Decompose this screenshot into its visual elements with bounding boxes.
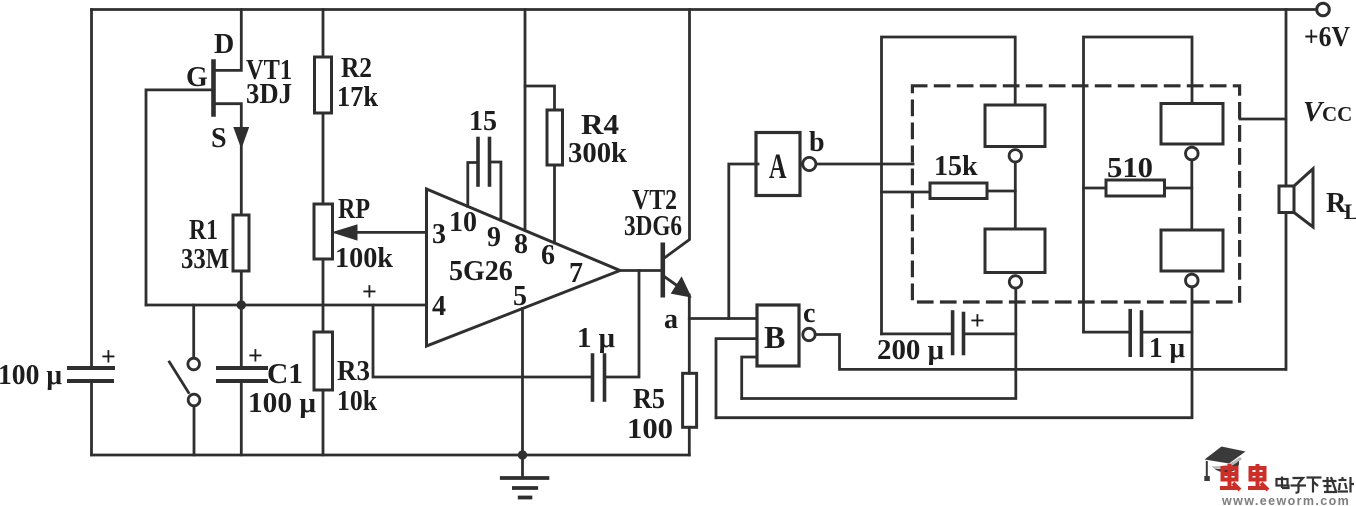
svg-text:300k: 300k xyxy=(568,138,627,169)
svg-text:B: B xyxy=(764,319,785,355)
svg-text:33M: 33M xyxy=(181,244,229,275)
svg-text:3DG6: 3DG6 xyxy=(624,211,682,242)
logo text zi xyxy=(1291,478,1307,493)
VT1 source arrow xyxy=(234,128,249,148)
resistor R1 xyxy=(233,215,249,271)
cap mortarboard xyxy=(1205,447,1246,464)
VT2 collector xyxy=(664,10,689,259)
module2 upper winding xyxy=(1161,104,1223,145)
wire bottom ground rail xyxy=(92,454,690,457)
wire emitter down xyxy=(688,295,691,373)
capacitor 1u (feedback) xyxy=(593,355,605,400)
logo char chong 2 xyxy=(1248,464,1268,490)
wire pin 8 from rail xyxy=(524,10,527,231)
svg-text:D: D xyxy=(214,29,234,60)
module1 upper winding xyxy=(985,105,1045,147)
module2 lower winding xyxy=(1161,230,1223,271)
wire left border upper xyxy=(90,10,93,368)
wire B input 3 xyxy=(742,357,757,399)
wire feedback to + input xyxy=(373,305,591,377)
VT2 emitter with arrow xyxy=(664,277,679,288)
resistor 15k xyxy=(930,183,987,199)
svg-text:5G26: 5G26 xyxy=(449,256,513,287)
svg-text:7: 7 xyxy=(569,258,583,289)
svg-text:1 μ: 1 μ xyxy=(1149,333,1185,364)
svg-text:+: + xyxy=(101,342,116,371)
svg-text:G: G xyxy=(186,62,208,93)
wire A output (node b) xyxy=(816,163,913,166)
svg-text:R3: R3 xyxy=(337,356,370,387)
svg-text:100: 100 xyxy=(627,414,673,445)
svg-text:3DJ: 3DJ xyxy=(246,79,292,110)
ground xyxy=(521,455,524,478)
svg-text:c: c xyxy=(803,298,815,329)
svg-text:+: + xyxy=(970,306,985,335)
svg-text:RP: RP xyxy=(338,194,370,225)
module1 supply frame xyxy=(882,37,1016,334)
wire left border lower xyxy=(90,382,93,456)
svg-text:R5: R5 xyxy=(633,384,665,415)
svg-text:CC: CC xyxy=(1322,102,1352,126)
svg-text:9: 9 xyxy=(487,222,501,253)
svg-text:a: a xyxy=(664,304,678,335)
logo text dian xyxy=(1277,477,1289,489)
svg-text:L: L xyxy=(1344,199,1356,224)
potentiometer RP xyxy=(314,204,333,259)
svg-text:17k: 17k xyxy=(337,82,378,113)
wire top supply rail xyxy=(92,8,1317,11)
svg-text:A: A xyxy=(769,146,787,186)
RP wiper arrow xyxy=(356,231,427,234)
resistor R4 xyxy=(525,86,555,110)
logo text xia xyxy=(1307,478,1322,493)
wire Vcc stub xyxy=(1240,118,1286,121)
wire pin 5 to ground xyxy=(521,309,524,456)
resistor 510 xyxy=(1106,180,1165,196)
svg-text:b: b xyxy=(809,127,825,158)
wire feedback module1 to B xyxy=(742,288,1016,399)
transistor VT2 base bar xyxy=(660,245,665,295)
svg-text:+6V: +6V xyxy=(1304,22,1350,53)
resistor R5 xyxy=(683,373,697,427)
wire op-amp output xyxy=(620,269,661,272)
capacitor 100u (left, on border) xyxy=(69,368,113,381)
svg-text:4: 4 xyxy=(432,291,446,322)
svg-text:www.eeworm.com: www.eeworm.com xyxy=(1221,494,1350,506)
gate A box xyxy=(756,133,800,196)
svg-text:1 μ: 1 μ xyxy=(577,323,615,354)
wire B output (node c) xyxy=(815,335,1285,370)
svg-text:100k: 100k xyxy=(335,243,393,274)
node junction dot (ground) xyxy=(518,450,527,459)
svg-text:100 μ: 100 μ xyxy=(248,388,316,419)
svg-text:10k: 10k xyxy=(337,386,377,417)
resistor R3 xyxy=(314,332,333,390)
wire VT1 source lead xyxy=(214,104,242,215)
wire feedback module2 to B xyxy=(716,287,1192,418)
svg-text:15k: 15k xyxy=(934,151,978,182)
wire 1u right lead xyxy=(606,271,639,378)
watermark logo xyxy=(1204,447,1354,506)
logo text zai xyxy=(1323,477,1338,492)
logo char chong 1 xyxy=(1220,464,1240,490)
svg-text:8: 8 xyxy=(514,229,528,260)
node junction dot (R1 bottom) xyxy=(237,300,246,309)
svg-text:10: 10 xyxy=(449,207,477,238)
logo text zhan xyxy=(1338,477,1355,493)
gate B box xyxy=(757,305,799,366)
module2 supply frame xyxy=(1084,37,1193,332)
wire right vertical upper xyxy=(1285,10,1288,187)
transistor VT1 gate bar xyxy=(211,62,216,115)
wire right vertical lower xyxy=(1285,213,1288,370)
svg-text:100 μ: 100 μ xyxy=(0,360,62,391)
svg-text:3: 3 xyxy=(432,219,446,250)
svg-text:6: 6 xyxy=(541,240,555,271)
module1 lower winding xyxy=(985,229,1045,273)
wire R1 bottom lead xyxy=(240,271,243,305)
wire B input 2 xyxy=(716,339,757,418)
svg-text:200 μ: 200 μ xyxy=(877,335,944,366)
wire VT1 drain vertical xyxy=(214,10,242,71)
svg-text:R1: R1 xyxy=(189,215,218,246)
op-amp 5G26 triangle xyxy=(427,189,621,346)
wire A input xyxy=(729,164,758,319)
capacitor C1 xyxy=(240,305,243,366)
svg-text:+: + xyxy=(248,341,263,370)
capacitor 1u (right) xyxy=(1084,331,1130,334)
svg-text:S: S xyxy=(211,123,227,154)
wire node a horizontal xyxy=(689,317,757,320)
capacitor 200u xyxy=(882,332,952,335)
svg-text:5: 5 xyxy=(513,281,527,312)
svg-text:R4: R4 xyxy=(581,110,619,141)
wire VT1 gate lead xyxy=(146,90,214,305)
resistor R2 xyxy=(322,10,325,58)
switch xyxy=(192,305,195,358)
svg-text:+: + xyxy=(362,277,377,306)
wire mid horizontal (+ input net) xyxy=(146,304,427,307)
svg-text:R2: R2 xyxy=(341,53,372,84)
svg-text:C1: C1 xyxy=(267,359,303,390)
dashed module boundary xyxy=(912,86,1239,302)
capacitor 15 (pins 10-9) xyxy=(478,139,490,186)
terminal +6V xyxy=(1317,3,1330,16)
svg-text:510: 510 xyxy=(1107,153,1153,184)
svg-text:15: 15 xyxy=(469,106,497,137)
speaker RL xyxy=(1279,186,1294,213)
